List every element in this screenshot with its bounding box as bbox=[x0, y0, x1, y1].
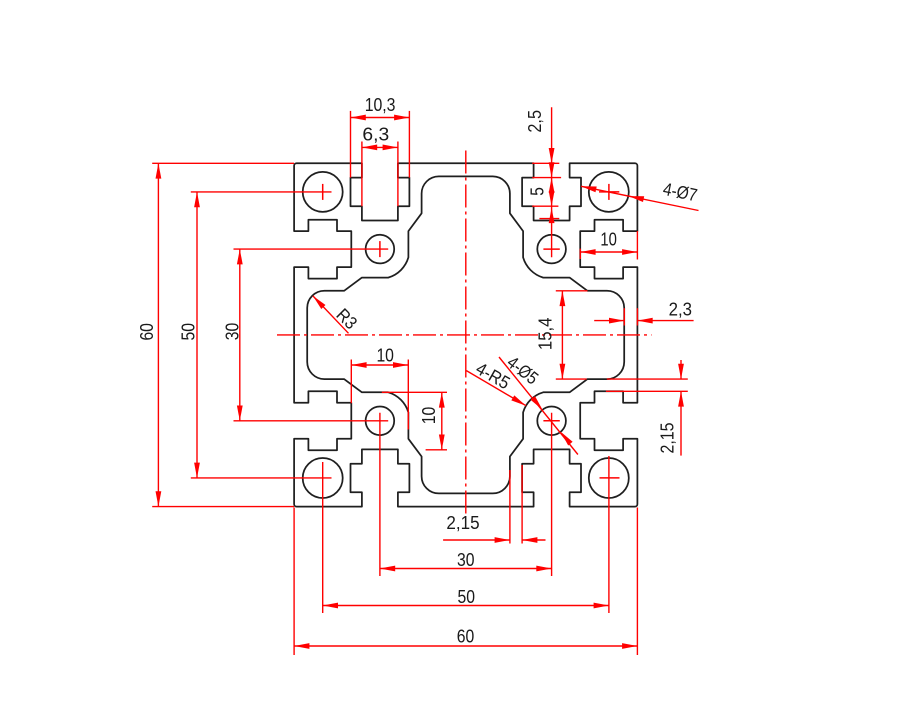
svg-text:5: 5 bbox=[527, 187, 547, 196]
svg-text:30: 30 bbox=[457, 550, 475, 570]
svg-text:6,3: 6,3 bbox=[362, 125, 389, 145]
svg-text:2,3: 2,3 bbox=[669, 299, 692, 319]
svg-text:60: 60 bbox=[457, 627, 475, 647]
svg-text:2,5: 2,5 bbox=[525, 110, 545, 133]
svg-text:2,15: 2,15 bbox=[657, 423, 677, 454]
svg-text:60: 60 bbox=[137, 323, 157, 341]
svg-text:30: 30 bbox=[222, 323, 242, 341]
svg-text:50: 50 bbox=[179, 323, 199, 341]
svg-text:10: 10 bbox=[419, 407, 439, 425]
svg-text:10: 10 bbox=[600, 230, 617, 250]
svg-text:10: 10 bbox=[376, 346, 394, 366]
svg-text:10,3: 10,3 bbox=[365, 95, 396, 115]
svg-text:15,4: 15,4 bbox=[536, 318, 556, 351]
svg-text:50: 50 bbox=[458, 587, 476, 607]
svg-text:2,15: 2,15 bbox=[446, 513, 479, 533]
